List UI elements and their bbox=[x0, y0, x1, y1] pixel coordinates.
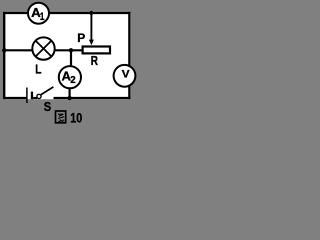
caption 图 glyph bbox=[56, 111, 66, 123]
svg-text:10: 10 bbox=[70, 110, 82, 126]
svg-text:V: V bbox=[122, 69, 130, 81]
svg-text:1: 1 bbox=[40, 11, 45, 23]
voltmeter V bbox=[114, 65, 136, 87]
svg-text:R: R bbox=[91, 53, 99, 68]
ammeter A1 bbox=[28, 3, 49, 24]
svg-text:2: 2 bbox=[70, 74, 76, 86]
svg-text:L: L bbox=[35, 61, 41, 76]
node left wall junction bbox=[2, 48, 6, 52]
wire lamp row bbox=[4, 49, 82, 51]
battery short plate bbox=[31, 92, 33, 100]
wire left wall bbox=[3, 12, 5, 99]
wire right wall bbox=[128, 12, 130, 99]
ammeter A2 bbox=[59, 66, 81, 88]
switch S pivot bbox=[37, 94, 41, 98]
wire A2 top lead bbox=[70, 50, 72, 67]
circuit box white interior bbox=[3, 12, 131, 99]
rheostat R body bbox=[83, 47, 110, 54]
wire bottom rail right segment bbox=[54, 97, 131, 99]
svg-text:P: P bbox=[77, 31, 85, 45]
node lamp-row / A2 tap junction bbox=[69, 48, 73, 52]
svg-text:S: S bbox=[44, 99, 52, 114]
node top rail / slider junction bbox=[89, 11, 93, 15]
wire top rail bbox=[3, 12, 130, 14]
background bbox=[0, 0, 142, 130]
slider arrowhead P bbox=[89, 40, 94, 46]
wire bottom rail left segment bbox=[3, 97, 26, 99]
wire A2 bottom lead bbox=[68, 87, 70, 98]
wire slider lead from top rail bbox=[90, 13, 92, 41]
battery long plate bbox=[26, 88, 28, 104]
lamp L bbox=[32, 37, 54, 59]
wire battery to switch bbox=[33, 97, 37, 99]
node A2 / bottom rail junction bbox=[67, 96, 71, 100]
switch S blade bbox=[41, 87, 53, 95]
